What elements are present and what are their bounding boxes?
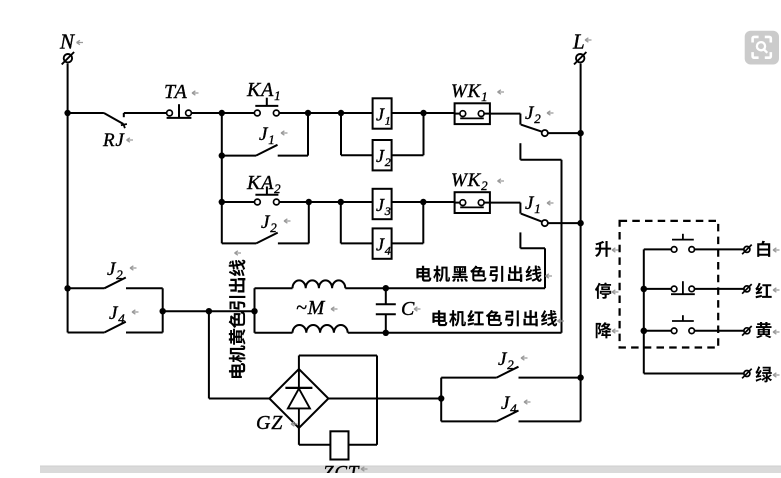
junction: pendant bus / stop row: [641, 286, 648, 293]
pushbutton up (NO): [644, 234, 744, 252]
junction: left branch / J1 contact row: [219, 152, 225, 158]
svg-text:~M: ~M: [296, 297, 326, 319]
junction: row2 / coil J4 branch: [338, 199, 344, 205]
motor M main winding: [293, 280, 346, 288]
label GZ: [256, 412, 298, 434]
junction: capacitor top: [383, 285, 389, 291]
wire: pendant common bus: [643, 249, 645, 373]
svg-text:RJ: RJ: [102, 130, 125, 151]
wire: motor top (black) lead: [255, 287, 546, 289]
wire: N bus vertical: [67, 64, 69, 333]
wire: row1 RJ to TA: [124, 112, 166, 114]
pushbutton KA1 (NO): [254, 98, 279, 116]
label KA2: [246, 172, 281, 196]
wire: row1 KA1 to coil J1: [280, 112, 373, 114]
wire: L bus vertical: [580, 64, 582, 422]
wire: row1 WK1 to J2 contact hinge: [490, 114, 521, 125]
label WK1: [451, 81, 504, 104]
svg-text:C: C: [401, 298, 415, 320]
junction: L bus / J2 contact: [577, 130, 583, 136]
label: motor yellow lead (vertical CJK): [229, 251, 246, 378]
wire: motor bottom (red) lead: [255, 332, 562, 334]
relay coil J3: [373, 189, 392, 219]
wire: motor yellow lead: [163, 310, 255, 312]
wire: pendant common to green terminal: [644, 373, 744, 375]
junction: pendant bus / down row: [641, 328, 648, 335]
pushbutton down (NO): [644, 315, 744, 333]
junction: GZ output: [438, 395, 444, 401]
wire: coil J4 branch: [341, 202, 373, 243]
relay contact J4 (rectifier): [441, 411, 580, 422]
junction: row1 / coil J2 rejoin: [420, 110, 426, 116]
label RJ: [102, 130, 133, 151]
relay contact J4 (motor feed): [68, 322, 163, 333]
svg-text:L: L: [572, 30, 585, 54]
relay contact J1 (to L bus): [521, 214, 548, 227]
label: motor red lead (CJK): [432, 310, 564, 326]
wire: row1 TA to junction: [192, 112, 254, 114]
relay coil J4: [373, 228, 392, 258]
label: up (CJK): [595, 241, 618, 257]
relay contact J2 (rectifier): [441, 367, 580, 378]
wire: coil J2 branch: [341, 113, 373, 155]
wire: GZ output to contacts: [328, 398, 441, 400]
wire: contact branch vertical: [440, 378, 442, 422]
svg-text:ZCT: ZCT: [323, 463, 360, 474]
wire: rectifier tap vertical: [209, 311, 270, 398]
junction: row2 / J2 seal-in riser: [306, 199, 312, 205]
junction: contact output / motor yellow lead: [160, 308, 166, 314]
relay contact J2 (to L bus): [521, 125, 548, 137]
pushbutton TA (NC): [167, 104, 192, 118]
relay coil J1: [373, 98, 392, 128]
relay contact J2 (motor feed): [68, 278, 163, 289]
terminal red: [742, 284, 752, 294]
relay contact J1 (seal-in): [222, 113, 308, 156]
wire: ZCT loop bottom left: [299, 428, 331, 445]
wire: left branch vertical (row1 to J2 contact row): [221, 113, 223, 243]
label ZCT: [323, 463, 368, 478]
junction: L bus / J2 rectifier contact: [577, 374, 583, 380]
junction: row1 / coil J2 branch: [338, 110, 344, 116]
thermal relay contact RJ: [104, 113, 127, 128]
wire: ZCT loop top: [299, 356, 377, 445]
temperature switch WK2: [455, 192, 490, 213]
terminal yellow: [742, 326, 752, 336]
label J4 (rectifier): [501, 393, 531, 416]
pendant station dashed enclosure: [620, 221, 719, 348]
wire: row2 segment to KA2: [222, 201, 254, 203]
wire: J2/J4 contact output vertical: [162, 288, 164, 332]
junction: N bus / J2 lower contact row: [64, 285, 70, 291]
bridge rectifier GZ: [269, 369, 328, 428]
label KA1: [246, 79, 281, 103]
terminal green: [742, 369, 752, 379]
wire: motor left vertical: [254, 288, 256, 333]
wire: row1 coil J1 to WK1: [392, 112, 455, 114]
wire: J1 contact to L bus: [548, 222, 581, 224]
junction: N bus / row1: [64, 110, 70, 116]
label WK2: [451, 170, 504, 193]
bottom scrollbar strip: [40, 466, 781, 473]
label J2 (rectifier): [498, 349, 528, 372]
label: white (CJK): [757, 241, 779, 257]
terminal L: [574, 52, 586, 64]
wire: coil J4 to rejoin: [392, 202, 424, 243]
pushbutton KA2 (NO): [255, 187, 280, 205]
wire: ZCT to loop right: [349, 444, 378, 446]
junction: yellow lead / rectifier tap: [206, 308, 212, 314]
wire: J1 common tap to motor black lead (step): [520, 232, 545, 288]
wire: coil J2 to rejoin: [392, 113, 424, 155]
temperature switch WK1: [455, 103, 490, 124]
relay contact J2 (seal-in): [222, 202, 309, 243]
label: stop (CJK): [595, 283, 619, 299]
wire: J2 contact to L bus: [548, 132, 581, 134]
label TA: [164, 81, 199, 103]
label: motor black lead (CJK): [416, 265, 552, 281]
wire: row2 coil J3 to WK2: [392, 201, 455, 203]
capacitor C: [376, 288, 396, 333]
wire: row1 segment N to RJ: [68, 112, 104, 114]
label L: [572, 30, 592, 54]
terminal white: [742, 245, 752, 255]
label: red (CJK): [755, 283, 779, 299]
terminal N: [62, 52, 74, 64]
junction: row1 / left branch: [219, 110, 225, 116]
wire: J2 common tap to motor red lead (step): [520, 143, 561, 333]
coil ZCT: [330, 431, 348, 459]
label: down (CJK): [596, 322, 619, 338]
svg-text:N: N: [59, 30, 75, 54]
label C: [401, 298, 421, 320]
label J1 (seal-in): [259, 124, 288, 147]
label ~M (motor): [296, 297, 338, 319]
svg-text:TA: TA: [164, 81, 187, 103]
motor M aux winding: [293, 325, 348, 333]
label J1 (contact): [525, 193, 554, 216]
label J2 (motor feed): [107, 259, 137, 282]
label N: [59, 30, 83, 54]
label: yellow (CJK): [756, 322, 780, 338]
label J2 (seal-in): [261, 212, 291, 235]
wire: row2 WK2 to J1 contact hinge: [490, 203, 521, 214]
pushbutton stop (NC): [644, 281, 744, 294]
label: green (CJK): [755, 366, 779, 382]
junction: L bus / J1 contact: [577, 220, 583, 226]
junction: capacitor bottom: [383, 330, 389, 336]
label J2 (contact): [525, 103, 554, 126]
viewer zoom icon: [745, 31, 779, 65]
relay coil J2: [373, 140, 392, 170]
junction: yellow lead / motor left: [251, 308, 257, 314]
junction: row2 / coil J4 rejoin: [420, 199, 426, 205]
junction: row1 / J1 seal-in riser: [305, 110, 311, 116]
svg-text:GZ: GZ: [256, 412, 283, 434]
wire: row2 KA2 to coil J3: [280, 201, 373, 203]
label J4 (motor feed): [109, 303, 139, 326]
junction: left branch / row2: [219, 199, 225, 205]
